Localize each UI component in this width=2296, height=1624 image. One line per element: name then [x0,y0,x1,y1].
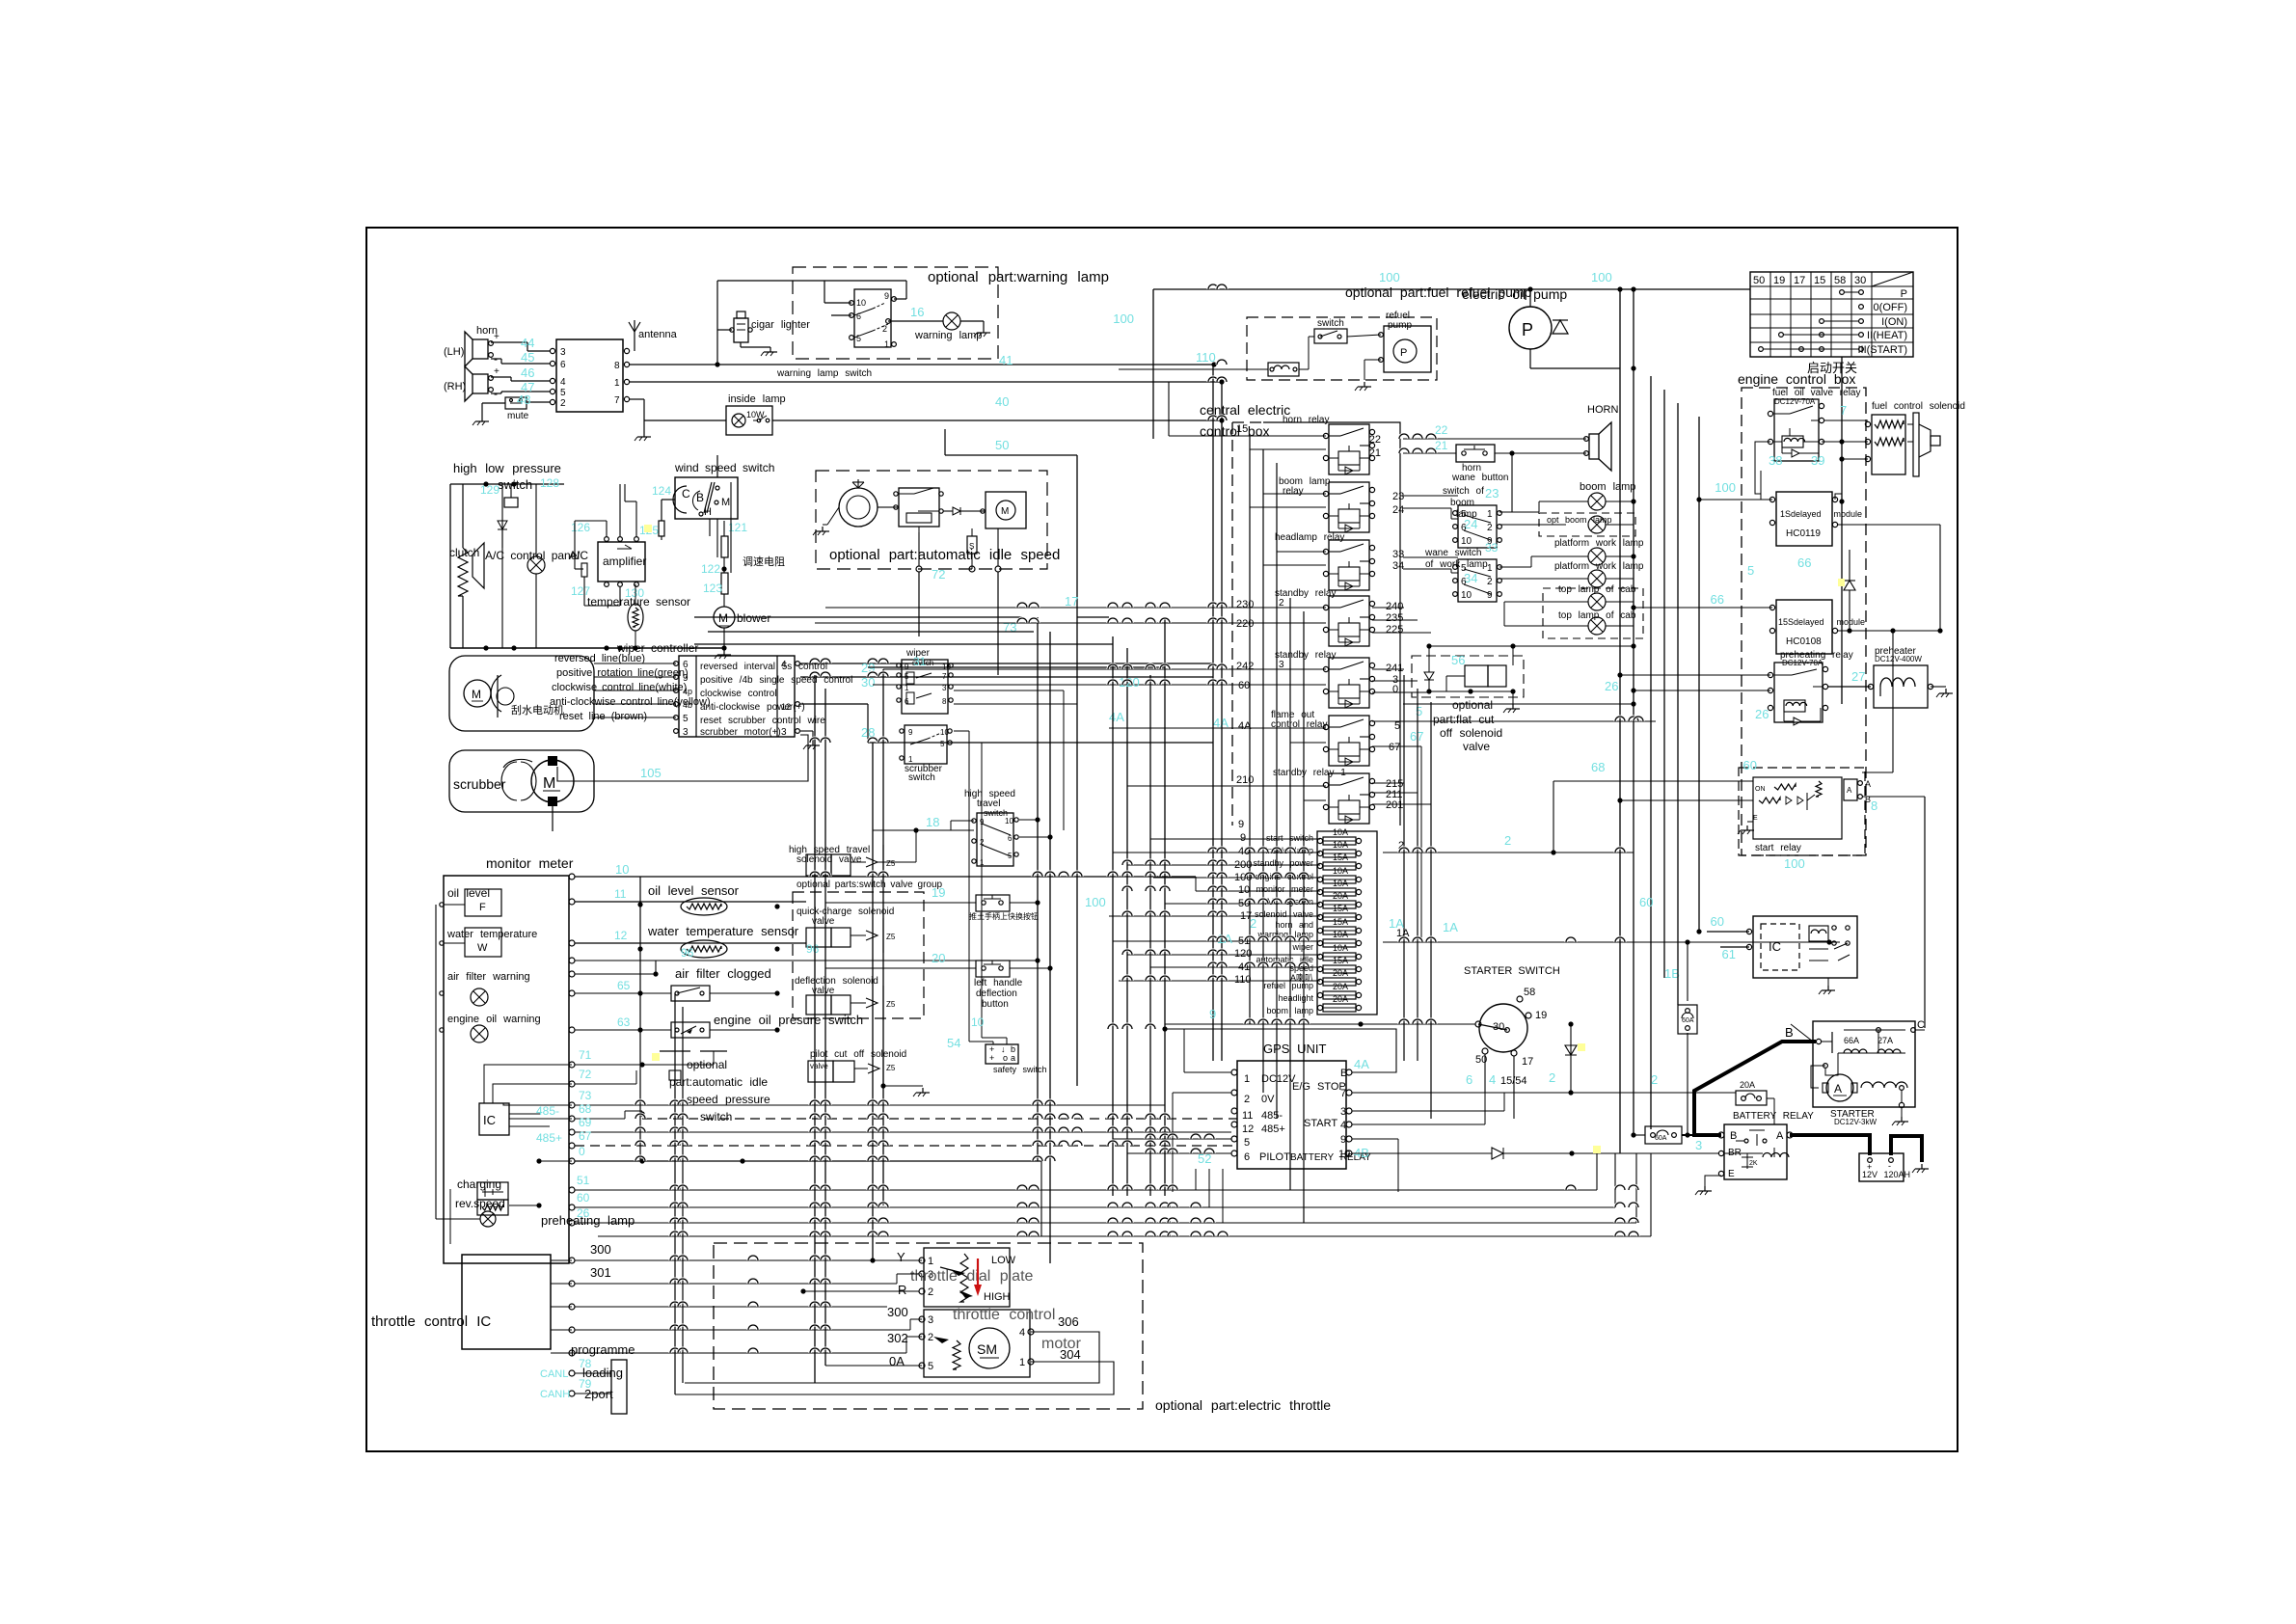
wire 28 [868,742,1213,744]
svg-text:SM: SM [977,1341,997,1357]
svg-text:2port: 2port [584,1387,613,1401]
svg-text:B: B [1730,1130,1737,1142]
svg-text:oil level sensor: oil level sensor [648,883,740,898]
svg-text:speed pressure: speed pressure [687,1093,770,1106]
svg-text:58: 58 [1834,275,1846,286]
starter switch wires [1165,1023,1475,1025]
svg-text:2: 2 [560,398,566,409]
svg-text:headlight: headlight [1278,993,1313,1003]
svg-text:71: 71 [579,1048,592,1062]
right IC relay box [1753,916,1857,978]
wire 50 to wind switch [716,455,718,477]
svg-text:60: 60 [577,1191,590,1204]
throttle control IC box [462,1255,551,1349]
svg-text:inside lamp: inside lamp [728,393,786,405]
svg-text:调速电阻: 调速电阻 [743,555,785,568]
svg-text:66A: 66A [1844,1036,1859,1045]
svg-text:10A: 10A [1333,827,1348,837]
wiper switch box [902,660,948,714]
top lamp dashed box [1543,588,1643,638]
svg-text:0V: 0V [1261,1094,1275,1105]
svg-text:a: a [1011,1053,1015,1063]
svg-text:F: F [479,902,486,913]
svg-text:M: M [472,688,481,701]
svg-text:100: 100 [1085,895,1106,909]
svg-text:0A: 0A [889,1354,905,1368]
svg-text:E: E [1753,815,1758,822]
svg-text:66: 66 [1797,555,1811,570]
cigar lighter [734,318,748,342]
throttle IC pins [569,1258,575,1263]
svg-text:41: 41 [999,353,1013,367]
bottom bus lines [598,1235,1651,1237]
wire horn LH+ 44 [491,341,527,343]
svg-text:24: 24 [1392,504,1404,516]
svg-text:50: 50 [995,438,1009,452]
mute button [505,397,527,409]
svg-text:10A: 10A [1333,840,1348,850]
svg-text:5: 5 [1747,563,1754,578]
safety switch [986,1044,1018,1064]
left handle deflection button [825,967,976,969]
wire mute 48 [527,401,551,403]
svg-text:S: S [969,542,974,551]
svg-text:8: 8 [1871,798,1877,813]
svg-text:blower: blower [737,611,770,625]
svg-text:III(START): III(START) [1857,344,1907,356]
svg-text:100: 100 [1379,270,1400,284]
svg-text:optional: optional [1452,698,1493,712]
svg-text:warning lamp switch: warning lamp switch [776,368,872,379]
svg-text:300: 300 [887,1305,908,1319]
1S delayed module [1776,492,1832,546]
svg-text:BATTERY RELAY: BATTERY RELAY [1733,1111,1814,1122]
svg-text:6: 6 [1466,1072,1472,1087]
engine box diode [1844,581,1855,590]
svg-text:68: 68 [1591,760,1605,774]
svg-text:2: 2 [1487,577,1493,587]
svg-text:3: 3 [1695,1138,1702,1152]
svg-text:110: 110 [1196,350,1216,365]
AC diode [501,484,503,548]
radio pin7 wire [629,398,644,400]
svg-text:126: 126 [571,521,590,534]
20A fuse link [1687,1033,1688,1135]
svg-text:standby power: standby power [1253,858,1313,868]
svg-text:9: 9 [1487,590,1493,601]
svg-text:4p: 4p [683,687,692,696]
svg-text:monitor meter: monitor meter [1256,884,1313,894]
svg-text:temperature sensor: temperature sensor [587,595,690,609]
svg-text:10: 10 [615,862,629,877]
svg-text:ON: ON [1755,786,1766,793]
engine control dashed box [1742,388,1866,855]
flat cut dashed box [1412,656,1524,697]
svg-text:2K: 2K [1749,1160,1758,1167]
relay feed wires long [825,607,1326,609]
svg-text:10A: 10A [1333,866,1348,876]
idle relay block [899,488,939,527]
wiper right wires 29 30 [800,663,1213,664]
svg-text:67: 67 [579,1129,592,1143]
svg-text:485-: 485- [1261,1110,1283,1122]
wiper left wires [594,663,676,664]
svg-text:48: 48 [517,392,530,407]
svg-text:73: 73 [579,1089,592,1102]
svg-text:100: 100 [1715,480,1736,495]
svg-text:100: 100 [1784,856,1805,871]
preheating lamp [480,1211,496,1227]
warning switch left stubs [824,302,851,304]
gps pin1 pin2 wires [1184,1071,1231,1073]
switch valve group dashed box [793,892,924,1018]
idle actuator circle [839,488,878,527]
svg-text:reset line (brown): reset line (brown) [559,711,647,722]
svg-text:6: 6 [1244,1151,1250,1163]
fuse 20A [1736,1091,1767,1105]
svg-text:5: 5 [1416,704,1422,718]
AC amp wiring [606,521,608,536]
horn speaker RH [473,374,488,393]
gps pin5 pin6 wires [1113,1138,1231,1140]
svg-text:mute: mute [507,411,529,421]
svg-text:30: 30 [1854,275,1866,286]
svg-text:charging: charging [457,1177,501,1191]
svg-text:+: + [494,332,500,342]
svg-text:clockwise control line(white): clockwise control line(white) [552,682,687,693]
svg-text:12: 12 [1242,1123,1254,1135]
idle box bottom pins [916,566,922,572]
svg-text:top lamp of cab: top lamp of cab [1558,610,1636,621]
svg-text:valve: valve [1463,740,1490,753]
svg-text:10: 10 [1005,817,1013,826]
svg-text:10: 10 [1338,1149,1350,1160]
svg-text:69: 69 [579,1116,592,1129]
svg-text:15A: 15A [1333,917,1348,927]
idle speed sensor [967,536,977,554]
inside lamp box [726,406,772,435]
svg-text:standby relay 1: standby relay 1 [1273,768,1346,778]
svg-text:3: 3 [1279,660,1284,670]
throttle dial plate box [924,1248,1010,1307]
svg-text:12: 12 [781,702,791,712]
rail down right [1619,289,1621,1153]
optional boom lamp dashed [1539,513,1635,536]
cigar lighter feed wire [717,329,732,331]
svg-text:3: 3 [683,727,689,738]
standby relay 2 [1329,596,1369,646]
svg-text:17: 17 [1065,594,1078,609]
regulating resistor 121-123 [721,536,728,557]
diode on starter feed [1570,1024,1572,1093]
svg-text:A: A [1776,1130,1784,1142]
GPS unit box [1237,1061,1346,1169]
svg-text:110: 110 [1234,974,1252,986]
svg-text:30: 30 [861,675,875,690]
startup switch table [1750,272,1913,357]
svg-text:throttle control IC: throttle control IC [371,1313,491,1330]
svg-text:16: 16 [910,305,924,319]
svg-text:horn and: horn and [1275,920,1313,930]
svg-text:M: M [718,611,728,625]
row 67 485+ [569,1143,575,1149]
svg-text:2: 2 [1651,1072,1658,1087]
svg-text:10: 10 [971,1015,985,1029]
flat cut solenoid [1465,665,1488,687]
AC bottom bus [450,647,724,649]
svg-text:optional part:electric throttl: optional part:electric throttle [1155,1397,1331,1413]
svg-text:6: 6 [1461,523,1467,533]
svg-text:38: 38 [1769,453,1782,468]
svg-text:60: 60 [1639,895,1653,909]
cigar lighter ground [740,342,742,347]
svg-text:5: 5 [940,740,945,748]
svg-text:241: 241 [1386,663,1403,674]
central box outline [1263,422,1400,826]
svg-text:21: 21 [1369,447,1381,459]
svg-text:opt boom lamp: opt boom lamp [1547,515,1612,525]
svg-text:off solenoid: off solenoid [1440,726,1502,740]
svg-text:15Sdelayed module: 15Sdelayed module [1778,617,1865,627]
high speed switch wires [873,829,974,831]
svg-text:33: 33 [1485,541,1499,555]
svg-text:rev.speed: rev.speed [455,1197,505,1210]
svg-text:deflection: deflection [976,988,1017,999]
svg-text:40: 40 [995,394,1009,409]
svg-text:HIGH: HIGH [984,1291,1011,1303]
svg-text:5: 5 [683,714,689,724]
svg-text:0: 0 [1392,684,1398,695]
svg-text:10A: 10A [1333,943,1348,953]
svg-text:+: + [989,1053,994,1063]
svg-text:H: H [704,506,712,518]
svg-text:scrubber motor(+): scrubber motor(+) [700,727,781,738]
starter box [1813,1021,1915,1107]
svg-text:128: 128 [540,476,559,490]
idle motor box [986,492,1026,528]
svg-text:301: 301 [590,1265,611,1280]
svg-text:23: 23 [1485,486,1499,501]
fuse 60A vertical [1678,1005,1697,1034]
AC bus top wire [450,483,564,485]
svg-text:cigar lighter: cigar lighter [751,319,810,331]
svg-text:platform work lamp: platform work lamp [1554,561,1644,572]
quick charge button [825,902,976,904]
svg-text:I(ON): I(ON) [1881,316,1907,328]
svg-text:58: 58 [1524,987,1535,998]
fuse feed wires [1150,838,1320,840]
svg-text:A: A [1847,786,1852,795]
gps EG stop wire [1352,1092,1736,1094]
row 71 pressure switch [569,1062,575,1068]
wire 105 [579,731,917,744]
svg-text:A/C: A/C [569,549,588,562]
svg-text:67: 67 [1389,742,1400,753]
svg-text:CANH: CANH [540,1389,570,1400]
svg-text:306: 306 [1058,1314,1079,1329]
monitor row 10 [569,874,575,880]
wire horn RH- 47 [491,392,501,394]
svg-text:P: P [1901,288,1907,300]
svg-text:switch: switch [908,772,935,783]
svg-text:safety switch: safety switch [993,1065,1047,1074]
svg-text:15A: 15A [1333,904,1348,913]
center trunk verticals [1112,636,1114,1196]
svg-text:60: 60 [1238,680,1250,691]
svg-text:boom lamp: boom lamp [1580,481,1635,493]
svg-text:73: 73 [1003,620,1016,635]
svg-text:wane switch: wane switch [1424,548,1481,558]
svg-text:A/C control panel: A/C control panel [485,549,580,562]
top lamp of cab 2 [1588,617,1606,635]
svg-text:19: 19 [1773,275,1785,286]
GPS pins [1231,1069,1237,1075]
svg-text:1: 1 [928,1256,933,1267]
svg-text:water temperature sensor: water temperature sensor [647,924,799,938]
svg-text:485+: 485+ [1261,1123,1285,1135]
svg-text:27A: 27A [1877,1036,1893,1045]
svg-text:22: 22 [1435,423,1448,437]
svg-text:4: 4 [1019,1327,1025,1339]
svg-text:17: 17 [1522,1056,1533,1068]
svg-text:STARTER SWITCH: STARTER SWITCH [1464,965,1560,977]
svg-text:1: 1 [980,858,985,867]
svg-text:5: 5 [560,388,566,398]
svg-text:304: 304 [1060,1347,1081,1362]
svg-text:A: A [1865,779,1871,789]
svg-text:46: 46 [521,365,534,380]
wiper power wire [800,703,868,705]
svg-text:44: 44 [521,336,534,350]
svg-text:1A: 1A [1389,916,1404,931]
IC box monitor [479,1103,509,1135]
wire 15 feed [1169,435,1326,437]
svg-text:10: 10 [1461,590,1472,601]
svg-text:124: 124 [652,484,671,498]
svg-text:1A: 1A [1443,920,1458,934]
wiper switch right wires [954,663,1038,664]
svg-text:7: 7 [614,395,620,406]
svg-text:2: 2 [1279,598,1284,609]
svg-text:10: 10 [856,298,866,308]
svg-text:7: 7 [1840,403,1847,418]
start relay input wires [1553,780,1753,782]
svg-text:4: 4 [1489,1072,1496,1087]
fuse box outline [1317,831,1377,1015]
svg-text:PILOT: PILOT [1259,1151,1290,1163]
radio unit box [556,339,623,412]
fuse 60A horizontal [1645,1126,1682,1144]
svg-text:3: 3 [1340,1106,1346,1118]
svg-text:20A: 20A [1333,994,1348,1004]
svg-text:15A: 15A [1333,853,1348,862]
svg-text:water temperature: water temperature [446,929,537,940]
refuel wiring [1347,335,1381,337]
thick battery wires [1694,1042,1816,1135]
svg-text:pilot cut off solenoid: pilot cut off solenoid [810,1049,906,1060]
15S delayed module [1776,600,1832,654]
wiper ground [800,730,813,732]
svg-text:2: 2 [1250,916,1256,931]
svg-text:5: 5 [1394,720,1400,732]
row 68 485- [569,1116,575,1122]
svg-text:B: B [1340,1068,1347,1079]
wiper motor rounded box [449,656,594,731]
svg-text:1: 1 [884,339,889,349]
svg-text:refuel pump: refuel pump [1263,981,1313,990]
svg-text:9: 9 [1340,1134,1346,1146]
wire 50 horizontal [945,454,1077,456]
svg-text:60: 60 [1743,758,1757,772]
start relay output wires [1862,796,1925,798]
svg-text:HC0119: HC0119 [1786,528,1821,539]
svg-text:throttle control: throttle control [953,1307,1055,1323]
svg-text:63: 63 [617,1015,631,1029]
svg-text:45: 45 [521,350,534,365]
wire 72 down [918,572,920,636]
svg-text:optional: optional [687,1058,727,1071]
AC amplifier box [598,542,645,582]
relay to 1S module wires [1755,442,1770,500]
svg-text:3: 3 [928,1314,933,1326]
platform work lamp 2 [1588,570,1606,587]
flame out control relay [1329,716,1369,766]
svg-text:deflection solenoid: deflection solenoid [795,976,878,987]
svg-text:10A: 10A [1333,879,1348,888]
svg-text:1: 1 [1019,1357,1025,1368]
svg-text:22: 22 [1369,434,1381,446]
svg-text:reset scrubber control wire: reset scrubber control wire [700,716,825,726]
radio pin1 wire [629,381,1222,383]
warning lamp dashed box [793,267,998,359]
svg-text:start relay: start relay [1755,843,1801,853]
boom lamp [1588,493,1606,510]
scrubber switch box [905,725,947,764]
svg-text:4: 4 [1340,1120,1346,1131]
svg-text:50: 50 [1753,275,1765,286]
svg-text:2: 2 [928,1286,933,1298]
gps 4B diode wire [1352,1152,1492,1154]
svg-text:part:automatic idle: part:automatic idle [669,1075,768,1089]
fuel refuel pump dashed box [1247,317,1437,380]
svg-text:CANL: CANL [540,1368,568,1380]
throttle control motor box [924,1310,1030,1377]
svg-text:20A: 20A [1333,982,1348,991]
svg-text:39: 39 [1811,453,1824,468]
svg-text:LOW: LOW [991,1255,1016,1266]
mute ground wire [482,402,505,404]
svg-text:23: 23 [1392,491,1404,502]
IC left wires [484,1065,572,1103]
svg-text:56: 56 [1451,653,1465,667]
svg-text:72: 72 [579,1068,592,1081]
svg-text:9: 9 [884,291,889,301]
svg-text:220: 220 [1236,618,1254,630]
svg-text:1: 1 [1487,509,1493,520]
right trunk verticals [1403,675,1405,1061]
svg-text:51: 51 [577,1174,590,1187]
svg-text:0(OFF): 0(OFF) [1874,302,1907,313]
svg-text:3: 3 [560,347,566,358]
svg-text:wiper: wiper [1291,942,1313,952]
svg-text:DC12V-3kW: DC12V-3kW [1834,1118,1877,1126]
svg-text:scrubber: scrubber [453,776,506,792]
svg-text:-: - [1888,1161,1891,1171]
svg-text:monitor meter: monitor meter [486,855,574,871]
relay right exit wires [1403,607,1404,609]
svg-text:C: C [682,487,690,501]
svg-text:amplifier: amplifier [603,555,646,568]
